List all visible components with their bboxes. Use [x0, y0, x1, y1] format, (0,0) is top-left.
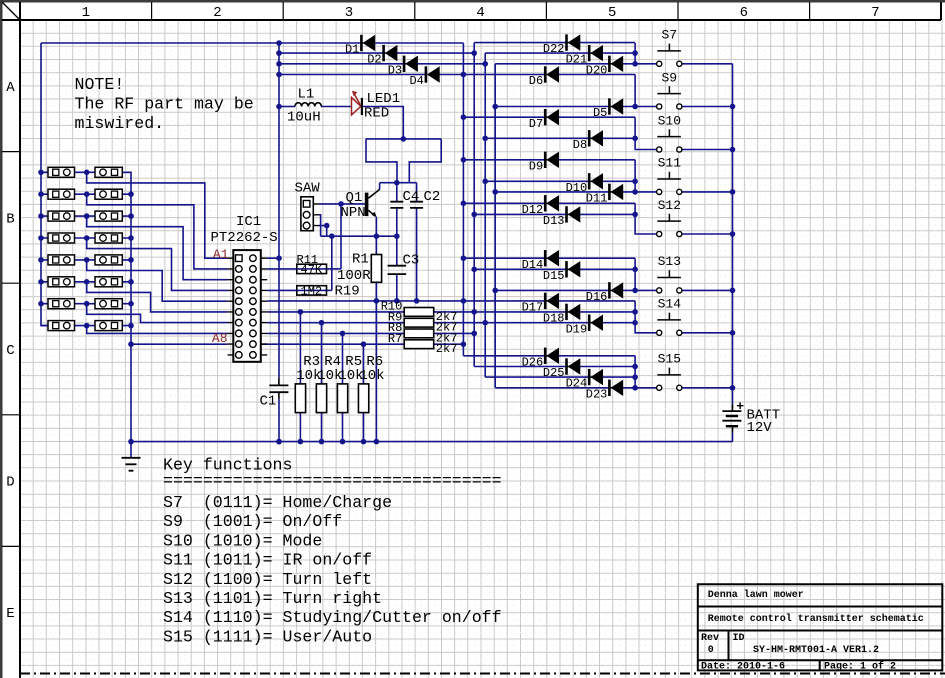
junction — [461, 255, 467, 261]
svg-text:Q1: Q1 — [346, 190, 363, 206]
junction — [128, 191, 134, 197]
wire switch to battery bus — [681, 149, 732, 151]
junction — [38, 191, 44, 197]
junction — [276, 255, 282, 261]
wire group2 collector — [634, 75, 636, 107]
wire jumper row 1 to IC pin 1 — [87, 172, 228, 258]
junction — [374, 233, 380, 239]
junction — [632, 212, 638, 218]
svg-text:S14 (1110)= Studying/Cutter on: S14 (1110)= Studying/Cutter on/off — [163, 608, 502, 627]
wire R3 to bus — [299, 413, 301, 442]
svg-text:D17: D17 — [522, 301, 544, 315]
jumper JPb2 — [95, 189, 122, 199]
wire top bus — [41, 42, 463, 44]
wire R5 to bus — [342, 413, 344, 442]
junction — [461, 72, 467, 78]
svg-text:D13: D13 — [543, 214, 565, 228]
junction — [632, 374, 638, 380]
svg-text:R1: R1 — [352, 251, 369, 267]
svg-text:D1: D1 — [345, 43, 359, 57]
svg-text:NOTE!: NOTE! — [75, 75, 125, 94]
wire jumper row 2 segments — [41, 193, 131, 195]
wire jumper row 3 to IC pin 3 — [87, 216, 228, 280]
junction — [730, 330, 736, 336]
junction — [298, 309, 304, 315]
jumper JPa8 — [48, 321, 75, 331]
junction — [482, 136, 488, 142]
junction — [492, 104, 498, 110]
diode D4 — [425, 66, 428, 82]
svg-text:Rev: Rev — [701, 633, 719, 644]
svg-text:L1: L1 — [298, 87, 315, 103]
junction — [632, 288, 638, 294]
junction — [84, 213, 90, 219]
wire R5 drop — [342, 333, 344, 384]
wire RF loop left — [366, 139, 397, 183]
wire switch to battery bus — [681, 332, 732, 334]
diode D15 — [565, 261, 568, 277]
svg-text:6: 6 — [740, 5, 748, 21]
diode D10 — [588, 173, 591, 189]
junction — [471, 50, 477, 56]
diode D13 — [565, 206, 568, 222]
junction — [276, 40, 282, 46]
wire C2 bottom — [416, 208, 418, 301]
svg-text:S13 (1101)= Turn right: S13 (1101)= Turn right — [163, 589, 382, 608]
svg-text:Denna lawn mower: Denna lawn mower — [708, 589, 804, 601]
junction — [730, 288, 736, 294]
junction — [461, 201, 467, 207]
diode D12 — [544, 195, 547, 211]
svg-text:miswired.: miswired. — [75, 114, 165, 133]
svg-text:R7: R7 — [388, 332, 402, 346]
wire ground rail x131 — [122, 172, 131, 441]
switch S11 — [657, 189, 662, 194]
wire Q1 collector — [379, 183, 381, 190]
junction — [38, 301, 44, 307]
wire D7 row — [463, 116, 635, 118]
wire R19 left — [267, 289, 297, 291]
svg-text:C1: C1 — [260, 394, 277, 410]
junction — [730, 231, 736, 237]
jumper JPa7 — [48, 299, 75, 309]
wire left rail — [41, 43, 48, 326]
svg-text:100R: 100R — [337, 268, 371, 284]
svg-text:A1: A1 — [213, 247, 229, 262]
switch S15 — [657, 385, 662, 390]
svg-text:4: 4 — [476, 5, 484, 21]
jumper JPa6 — [48, 277, 75, 287]
diode D20 — [608, 56, 611, 72]
junction — [84, 191, 90, 197]
svg-text:12V: 12V — [747, 420, 773, 436]
wire D5-S9 row — [495, 106, 656, 108]
jumper JPb5 — [95, 255, 122, 265]
resistor R1 — [371, 255, 381, 283]
wire pin1 to Vcc — [267, 257, 279, 259]
wire pin6 data row right D18 — [434, 311, 635, 313]
svg-text:D7: D7 — [529, 117, 543, 131]
svg-text:S9 (1001)= On/Off: S9 (1001)= On/Off — [163, 512, 342, 531]
junction — [340, 439, 346, 445]
junction — [492, 288, 498, 294]
junction — [38, 279, 44, 285]
diode D26 — [544, 348, 547, 364]
svg-text:D15: D15 — [543, 269, 565, 283]
resistor R9 — [404, 318, 434, 327]
junction — [128, 301, 134, 307]
junction — [730, 147, 736, 153]
inductor L1 — [295, 103, 321, 107]
svg-text:S7: S7 — [661, 28, 677, 43]
wire jumper row 4 segments — [41, 237, 131, 239]
wire D25 row — [474, 366, 635, 368]
svg-text:==============================: ================================== — [163, 472, 502, 491]
junction — [632, 189, 638, 195]
wire D12 row — [463, 202, 635, 204]
svg-text:D: D — [6, 475, 14, 491]
wire D3 row — [279, 63, 485, 65]
wire pin5 data row D17 — [267, 300, 635, 302]
junction — [276, 104, 282, 110]
wire D20-S7 row — [495, 63, 656, 65]
wire jumper row 6 to IC pin 6 — [87, 282, 228, 312]
wire SAW pin3 — [319, 226, 327, 237]
svg-text:D20: D20 — [586, 63, 608, 77]
wire R4 to bus — [321, 413, 323, 442]
junction — [38, 257, 44, 263]
jumper JPb1 — [95, 167, 122, 177]
diode D19 — [588, 315, 591, 331]
svg-text:S11 (1011)= IR on/off: S11 (1011)= IR on/off — [163, 551, 372, 570]
wire Q1 base row — [319, 203, 366, 205]
wire D16-S13 row — [495, 289, 656, 291]
wire SAW pin2 — [319, 215, 321, 236]
wire bus1 vertical — [462, 43, 464, 356]
wire R1 bottom — [375, 282, 377, 441]
junction — [374, 298, 380, 304]
svg-text:SAW: SAW — [295, 180, 321, 196]
wire jumper row 1 segments — [41, 171, 131, 173]
resistor R11 — [297, 264, 327, 273]
junction — [319, 320, 325, 326]
capacitor C2 — [410, 202, 423, 208]
wire emitter row — [321, 235, 397, 237]
svg-text:RED: RED — [364, 106, 389, 122]
junction — [492, 189, 498, 195]
junction — [461, 341, 467, 347]
capacitor C4 — [390, 202, 403, 208]
wire R11 right — [327, 268, 342, 270]
diode D1 — [360, 35, 363, 51]
wire D13 row — [474, 213, 635, 215]
junction — [276, 72, 282, 78]
switch S7 — [657, 61, 662, 66]
svg-text:SY-HM-RMT001-A VER1.2: SY-HM-RMT001-A VER1.2 — [753, 645, 879, 656]
junction — [340, 331, 346, 337]
wire pin9 to ground bus — [131, 343, 228, 345]
svg-text:D24: D24 — [566, 377, 588, 391]
wire D10 row — [485, 180, 635, 182]
junction — [394, 298, 400, 304]
wire jumper row 8 segments — [41, 325, 131, 327]
svg-text:D2: D2 — [367, 53, 381, 67]
junction — [632, 179, 638, 185]
wire R3 drop — [299, 312, 301, 384]
svg-text:2k7: 2k7 — [436, 342, 458, 356]
svg-text:D16: D16 — [586, 290, 608, 304]
wire D2 row — [279, 52, 474, 54]
LED LED1 — [352, 98, 361, 115]
jumper JPa1 — [48, 167, 75, 177]
svg-text:D21: D21 — [566, 53, 588, 67]
junction — [128, 341, 134, 347]
wire pin7 data row left — [267, 322, 404, 324]
wire jumper row 6 segments — [41, 281, 131, 283]
junction — [632, 364, 638, 370]
svg-text:D5: D5 — [593, 106, 607, 120]
diode D17 — [544, 293, 547, 309]
battery BATT — [732, 404, 734, 432]
junction — [84, 301, 90, 307]
wire RF loop right — [409, 139, 441, 183]
junction — [38, 170, 44, 176]
wire jumper row 3 segments — [41, 215, 131, 217]
junction — [276, 439, 282, 445]
jumper JPb3 — [95, 211, 122, 221]
diode D18 — [565, 304, 568, 320]
wire battery bus — [732, 64, 734, 404]
svg-text:S9: S9 — [661, 70, 677, 85]
svg-text:S11: S11 — [658, 156, 682, 171]
svg-text:D18: D18 — [543, 312, 565, 326]
svg-text:S13: S13 — [658, 254, 681, 269]
wire D15 row — [474, 268, 635, 270]
junction — [38, 213, 44, 219]
svg-text:R11: R11 — [297, 253, 319, 267]
svg-text:D25: D25 — [543, 366, 565, 380]
svg-text:10k: 10k — [359, 368, 384, 384]
capacitor C1 — [278, 378, 280, 399]
junction — [84, 323, 90, 329]
junction — [730, 385, 736, 391]
svg-text:S14: S14 — [658, 297, 682, 312]
wire collector row — [380, 182, 417, 184]
wire group7 collector — [635, 301, 656, 333]
resistor R6 — [358, 384, 368, 413]
diode D24 — [588, 369, 591, 385]
wire C4 top — [396, 183, 398, 202]
wire D26 row — [463, 355, 635, 357]
junction — [471, 309, 477, 315]
svg-text:S7 (0111)= Home/Charge: S7 (0111)= Home/Charge — [163, 493, 392, 512]
svg-text:E: E — [6, 606, 14, 622]
junction — [461, 114, 467, 120]
wire switch to battery bus — [681, 63, 732, 65]
svg-text:Remote control transmitter sch: Remote control transmitter schematic — [708, 613, 924, 625]
wire D22 row — [474, 42, 635, 44]
wire R6 to bus — [363, 413, 365, 442]
junction — [128, 257, 134, 263]
junction — [632, 136, 638, 142]
svg-text:0: 0 — [708, 645, 714, 656]
junction — [361, 439, 367, 445]
svg-text:D3: D3 — [388, 63, 402, 77]
svg-text:S10 (1010)= Mode: S10 (1010)= Mode — [163, 531, 322, 550]
wire switch to battery bus — [681, 233, 732, 235]
diode D25 — [565, 358, 568, 374]
diode D21 — [588, 45, 591, 61]
junction — [394, 180, 400, 186]
junction — [128, 279, 134, 285]
resistor R4 — [316, 384, 326, 413]
junction — [374, 439, 380, 445]
svg-text:PT2262-S: PT2262-S — [211, 230, 278, 246]
svg-text:+: + — [736, 399, 744, 414]
resistor R5 — [337, 384, 347, 413]
svg-text:1: 1 — [82, 5, 90, 21]
wire group3 collector — [635, 117, 656, 149]
resistor R8 — [404, 329, 434, 338]
diode D9 — [544, 152, 547, 168]
svg-text:Page: 1 of 2: Page: 1 of 2 — [824, 661, 896, 673]
junction — [361, 341, 367, 347]
diode D5 — [608, 98, 611, 114]
switch S12 — [657, 231, 662, 236]
svg-text:1M2: 1M2 — [301, 285, 323, 299]
wire group6 collector — [634, 258, 636, 290]
wire jumper row 8 to IC pin 8 — [87, 326, 228, 334]
wire D4-D6 row — [279, 74, 635, 76]
wire LED out — [362, 107, 403, 139]
IC U1 PT2262-S — [233, 250, 260, 362]
wire pin8 data row right — [434, 332, 475, 334]
wire L1 to LED — [321, 106, 351, 108]
svg-text:A8: A8 — [212, 331, 228, 346]
wire pin6 data row left — [267, 311, 404, 313]
junction — [482, 179, 488, 185]
svg-text:D6: D6 — [529, 74, 543, 88]
junction — [471, 331, 477, 337]
junction — [632, 50, 638, 56]
junction — [329, 233, 335, 239]
junction — [128, 235, 134, 241]
jumper JPa3 — [48, 211, 75, 221]
junction — [632, 61, 638, 67]
wire bus4 vertical — [494, 64, 496, 388]
junction — [276, 439, 282, 445]
wire jumper row 5 segments — [41, 259, 131, 261]
wire D23-S15 row — [495, 387, 656, 389]
svg-text:ID: ID — [733, 633, 745, 644]
junction — [298, 439, 304, 445]
wire jumper row 4 to IC pin 4 — [87, 238, 228, 290]
resistor R7 — [404, 340, 434, 349]
svg-text:S12: S12 — [658, 198, 681, 213]
wire battery bottom stub — [732, 433, 734, 442]
wire RF loop top — [366, 138, 441, 140]
wire R11 riser — [340, 204, 342, 269]
junction — [632, 320, 638, 326]
wire R4 drop — [321, 323, 323, 384]
svg-text:NPN: NPN — [341, 205, 366, 221]
switch S9 — [657, 104, 662, 109]
junction — [128, 323, 134, 329]
diode D16 — [608, 282, 611, 298]
diode D8 — [588, 130, 591, 146]
svg-text:5: 5 — [608, 5, 616, 21]
wire group4 collector — [634, 160, 636, 192]
wire switch to battery bus — [681, 289, 732, 291]
svg-text:D23: D23 — [586, 387, 608, 401]
diode D2 — [382, 45, 385, 61]
svg-text:D4: D4 — [409, 74, 423, 88]
junction — [632, 385, 638, 391]
jumper JPa5 — [48, 255, 75, 265]
junction — [471, 267, 477, 273]
junction — [414, 298, 420, 304]
resistor R19 — [297, 286, 327, 295]
wire L1 row left — [279, 106, 295, 108]
svg-text:IC1: IC1 — [236, 214, 261, 230]
wire jumper row 5 to IC pin 5 — [87, 260, 228, 301]
svg-text:S15 (1111)= User/Auto: S15 (1111)= User/Auto — [163, 627, 372, 646]
svg-text:D8: D8 — [573, 138, 587, 152]
svg-text:7: 7 — [871, 5, 879, 21]
wire Q1 emitter drop — [375, 217, 377, 254]
wire ground stub — [130, 442, 132, 458]
junction — [471, 212, 477, 218]
diode D11 — [608, 184, 611, 200]
svg-text:A: A — [6, 80, 15, 96]
wire R19 riser — [331, 236, 333, 290]
svg-text:3: 3 — [345, 5, 353, 21]
junction — [324, 223, 330, 229]
resonator SAW — [301, 197, 313, 231]
diode D6 — [544, 66, 547, 82]
svg-text:2: 2 — [213, 5, 221, 21]
junction — [128, 213, 134, 219]
wire Vcc bus x279 lower — [278, 399, 280, 441]
junction — [128, 439, 134, 445]
junction — [394, 233, 400, 239]
wire C3 top — [396, 236, 398, 266]
diode D22 — [565, 34, 568, 50]
wire bus2 vertical — [473, 43, 475, 367]
wire D11-S11 row — [495, 191, 656, 193]
svg-text:Date: 2010-1-6: Date: 2010-1-6 — [701, 662, 785, 673]
wire group5 collector — [635, 203, 656, 234]
wire C4 bottom — [396, 208, 398, 236]
diode D7 — [544, 109, 547, 125]
junction — [319, 439, 325, 445]
junction — [730, 104, 736, 110]
junction — [461, 157, 467, 163]
wire D8 row — [485, 137, 635, 139]
junction — [482, 320, 488, 326]
wire R6 drop — [363, 344, 365, 384]
svg-text:B: B — [6, 211, 14, 227]
title block — [698, 584, 943, 670]
resistor R10 — [404, 308, 434, 317]
jumper JPa2 — [48, 189, 75, 199]
wire group1 collector — [634, 43, 636, 64]
switch S10 — [657, 147, 662, 152]
svg-text:S10: S10 — [658, 113, 681, 128]
svg-text:S15: S15 — [658, 352, 681, 367]
svg-text:S12 (1100)= Turn left: S12 (1100)= Turn left — [163, 570, 372, 589]
wire group8 collector — [634, 356, 636, 388]
